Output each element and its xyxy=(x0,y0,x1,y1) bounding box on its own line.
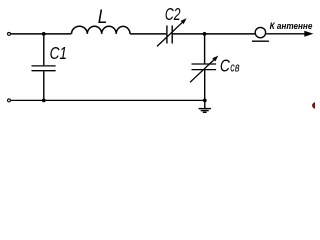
svg-text:L: L xyxy=(98,6,108,28)
svg-text:св: св xyxy=(230,60,239,75)
svg-text:C2: C2 xyxy=(165,4,181,24)
svg-text:C: C xyxy=(220,56,230,76)
svg-text:C1: C1 xyxy=(50,43,67,63)
svg-text:К антенне: К антенне xyxy=(270,21,313,31)
